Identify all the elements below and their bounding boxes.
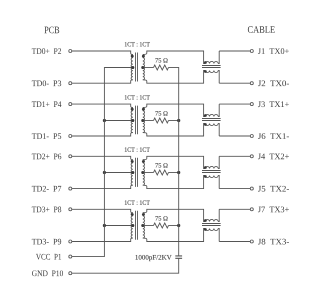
pin label TD3- P9 xyxy=(32,239,61,245)
wire T1 primary center tap xyxy=(104,67,132,69)
choke L2 phase dot bottom xyxy=(204,123,207,126)
choke L3 top winding xyxy=(205,166,218,168)
wire TD0- to T1 primary bottom xyxy=(72,80,133,83)
choke L4 core xyxy=(202,224,221,226)
transformer T3 phase dot primary xyxy=(131,160,134,163)
transformer T3 phase dot secondary xyxy=(142,160,145,163)
transformer T1 core xyxy=(136,53,138,82)
wire TD1+ to T2 primary top xyxy=(72,104,133,107)
terminal J1 xyxy=(250,50,253,53)
terminal J8 xyxy=(250,240,253,243)
transformer T2 secondary winding xyxy=(143,108,145,121)
terminal P10 xyxy=(69,272,72,275)
junction dot T4 tap on VCC rail xyxy=(103,224,106,227)
transformer T4 secondary winding xyxy=(143,213,145,226)
wire R4 to termination rail xyxy=(169,225,179,227)
transformer T1 secondary winding xyxy=(143,54,145,67)
junction dot primary tap T4 xyxy=(131,224,134,227)
terminal J2 xyxy=(250,82,253,85)
terminal P8 xyxy=(69,208,72,211)
pin label J7 TX3+ xyxy=(258,207,289,213)
wire TD2+ to T3 primary top xyxy=(72,156,133,159)
label 75 ohm for R1 xyxy=(155,58,167,62)
choke L1 phase dot bottom xyxy=(204,70,207,73)
junction dot R4 on rail xyxy=(177,224,180,227)
wire T4 primary center tap xyxy=(104,225,132,227)
pin label J3 TX1+ xyxy=(258,101,289,107)
choke L3 phase dot top xyxy=(204,166,207,169)
pin label TD1+ P4 xyxy=(32,101,62,107)
terminal J7 xyxy=(250,208,253,211)
transformer T2 core xyxy=(136,106,138,135)
transformer T2 phase dot primary xyxy=(131,108,134,111)
wire T2 secondary bottom to choke L2 xyxy=(143,124,205,137)
choke L4 top winding xyxy=(205,219,218,221)
junction dot secondary tap T1 xyxy=(141,66,144,69)
wire T3 secondary center tap xyxy=(143,172,154,174)
wire T1 secondary bottom to choke L1 xyxy=(143,71,205,84)
VCC rail (primary center taps to P1) xyxy=(72,67,104,257)
wire choke L4 to J7 xyxy=(219,208,250,210)
junction dot T3 tap on VCC rail xyxy=(103,171,106,174)
pin label J6 TX1- xyxy=(258,133,289,139)
pin label TD2- P7 xyxy=(32,186,61,192)
choke L2 top winding xyxy=(205,114,218,116)
termination rail (75 ohm common node) xyxy=(178,67,180,256)
wire capacitor C1 to GND xyxy=(72,258,179,273)
choke L4 phase dot bottom xyxy=(204,228,207,231)
choke L4 phase dot top xyxy=(204,219,207,222)
wire TD3+ to T4 primary top xyxy=(72,209,133,212)
choke L1 core xyxy=(202,66,221,68)
terminal P1 xyxy=(69,255,72,258)
transformer T2 primary winding xyxy=(131,108,133,121)
choke L1 top winding xyxy=(205,61,218,63)
choke L2 bottom winding xyxy=(205,124,218,126)
terminal P3 xyxy=(69,82,72,85)
wire TD3- to T4 primary bottom xyxy=(72,238,133,241)
pin label J8 TX3- xyxy=(258,239,289,245)
pin label GND P10 xyxy=(32,270,63,276)
pin label J5 TX2- xyxy=(258,186,289,192)
choke L1 bottom winding xyxy=(205,71,218,73)
terminal J4 xyxy=(250,155,253,158)
label 1CT : 1CT for T4 xyxy=(125,200,150,204)
terminal P2 xyxy=(69,50,72,53)
wire T3 secondary top to choke L3 xyxy=(143,156,205,168)
wire R2 to termination rail xyxy=(169,120,179,122)
transformer T4 core xyxy=(136,211,138,240)
junction dot secondary tap T2 xyxy=(141,119,144,122)
junction dot primary tap T2 xyxy=(131,119,134,122)
header CABLE xyxy=(248,26,275,33)
wire R3 to termination rail xyxy=(169,172,179,174)
choke L3 core xyxy=(202,171,221,173)
choke L3 bottom winding xyxy=(205,176,218,178)
resistor R2 75 ohm xyxy=(154,118,169,123)
wire TD0+ to T1 primary top xyxy=(72,51,133,54)
label 1CT : 1CT for T1 xyxy=(125,42,150,46)
terminal P9 xyxy=(69,240,72,243)
transformer T3 core xyxy=(136,158,138,187)
capacitor C1 plates xyxy=(175,256,182,258)
wire TD1- to T2 primary bottom xyxy=(72,133,133,136)
junction dot primary tap T1 xyxy=(131,66,134,69)
pin label TD2+ P6 xyxy=(32,154,61,160)
label 1CT : 1CT for T3 xyxy=(125,147,150,151)
choke L2 core xyxy=(202,119,221,121)
wire choke L1 to J1 xyxy=(219,50,250,52)
pin label J1 TX0+ xyxy=(258,48,289,54)
pin label TD0- P3 xyxy=(32,80,61,86)
wire choke L4 to J8 xyxy=(219,241,250,243)
terminal P7 xyxy=(69,187,72,190)
transformer T1 primary winding xyxy=(131,54,133,67)
junction dot secondary tap T4 xyxy=(141,224,144,227)
resistor R4 75 ohm xyxy=(154,223,169,228)
transformer T4 phase dot primary xyxy=(131,213,134,216)
transformer T4 phase dot secondary xyxy=(142,213,145,216)
transformer T1 phase dot secondary xyxy=(142,55,145,58)
wire T2 primary center tap xyxy=(104,120,132,122)
pin label J2 TX0- xyxy=(258,80,289,86)
header PCB xyxy=(44,27,59,34)
wire T4 secondary top to choke L4 xyxy=(143,209,205,221)
choke L4 bottom winding xyxy=(205,229,218,231)
terminal P4 xyxy=(69,103,72,106)
wire choke L3 to J5 xyxy=(219,188,250,190)
wire T4 secondary bottom to choke L4 xyxy=(143,229,205,242)
junction dot primary tap T3 xyxy=(131,171,134,174)
wire T2 secondary top to choke L2 xyxy=(143,104,205,116)
junction dot R2 on rail xyxy=(177,119,180,122)
junction dot secondary tap T3 xyxy=(141,171,144,174)
pin label J4 TX2+ xyxy=(258,154,289,160)
label 1CT : 1CT for T2 xyxy=(125,95,150,99)
wire choke L3 to J4 xyxy=(219,155,250,157)
choke L2 phase dot top xyxy=(204,114,207,117)
label 75 ohm for R3 xyxy=(155,163,167,167)
terminal P5 xyxy=(69,135,72,138)
wire choke L1 to J2 xyxy=(219,82,250,84)
wire T1 secondary top to choke L1 xyxy=(143,51,205,64)
choke L3 phase dot bottom xyxy=(204,175,207,178)
transformer T2 phase dot secondary xyxy=(142,108,145,111)
wire choke L2 to J3 xyxy=(219,103,250,105)
terminal P6 xyxy=(69,155,72,158)
transformer T1 phase dot primary xyxy=(131,55,134,58)
wire T2 secondary center tap xyxy=(143,120,154,122)
pin label TD0+ P2 xyxy=(32,48,61,54)
pin label TD1- P5 xyxy=(32,133,61,139)
junction dot T2 tap on VCC rail xyxy=(103,119,106,122)
terminal J5 xyxy=(250,187,253,190)
resistor R1 75 ohm xyxy=(154,65,169,70)
wire T3 primary center tap xyxy=(104,172,132,174)
wire T1 secondary center tap xyxy=(143,67,154,69)
wire TD2- to T3 primary bottom xyxy=(72,185,133,188)
transformer T3 secondary winding xyxy=(143,160,145,173)
transformer T4 primary winding xyxy=(131,213,133,226)
wire choke L2 to J6 xyxy=(219,135,250,137)
label 75 ohm for R2 xyxy=(155,111,167,115)
transformer T3 primary winding xyxy=(131,160,133,173)
terminal J6 xyxy=(250,135,253,138)
label 75 ohm for R4 xyxy=(155,216,167,220)
resistor R3 75 ohm xyxy=(154,170,169,175)
terminal J3 xyxy=(250,103,253,106)
wire T3 secondary bottom to choke L3 xyxy=(143,176,205,189)
pin label TD3+ P8 xyxy=(32,207,61,213)
choke L1 phase dot top xyxy=(204,61,207,64)
junction dot R3 on rail xyxy=(177,171,180,174)
label 1000pF/2KV xyxy=(136,255,172,261)
pin label VCC P1 xyxy=(36,254,61,260)
wire T4 secondary center tap xyxy=(143,225,154,227)
wire R1 to termination rail xyxy=(169,67,179,69)
